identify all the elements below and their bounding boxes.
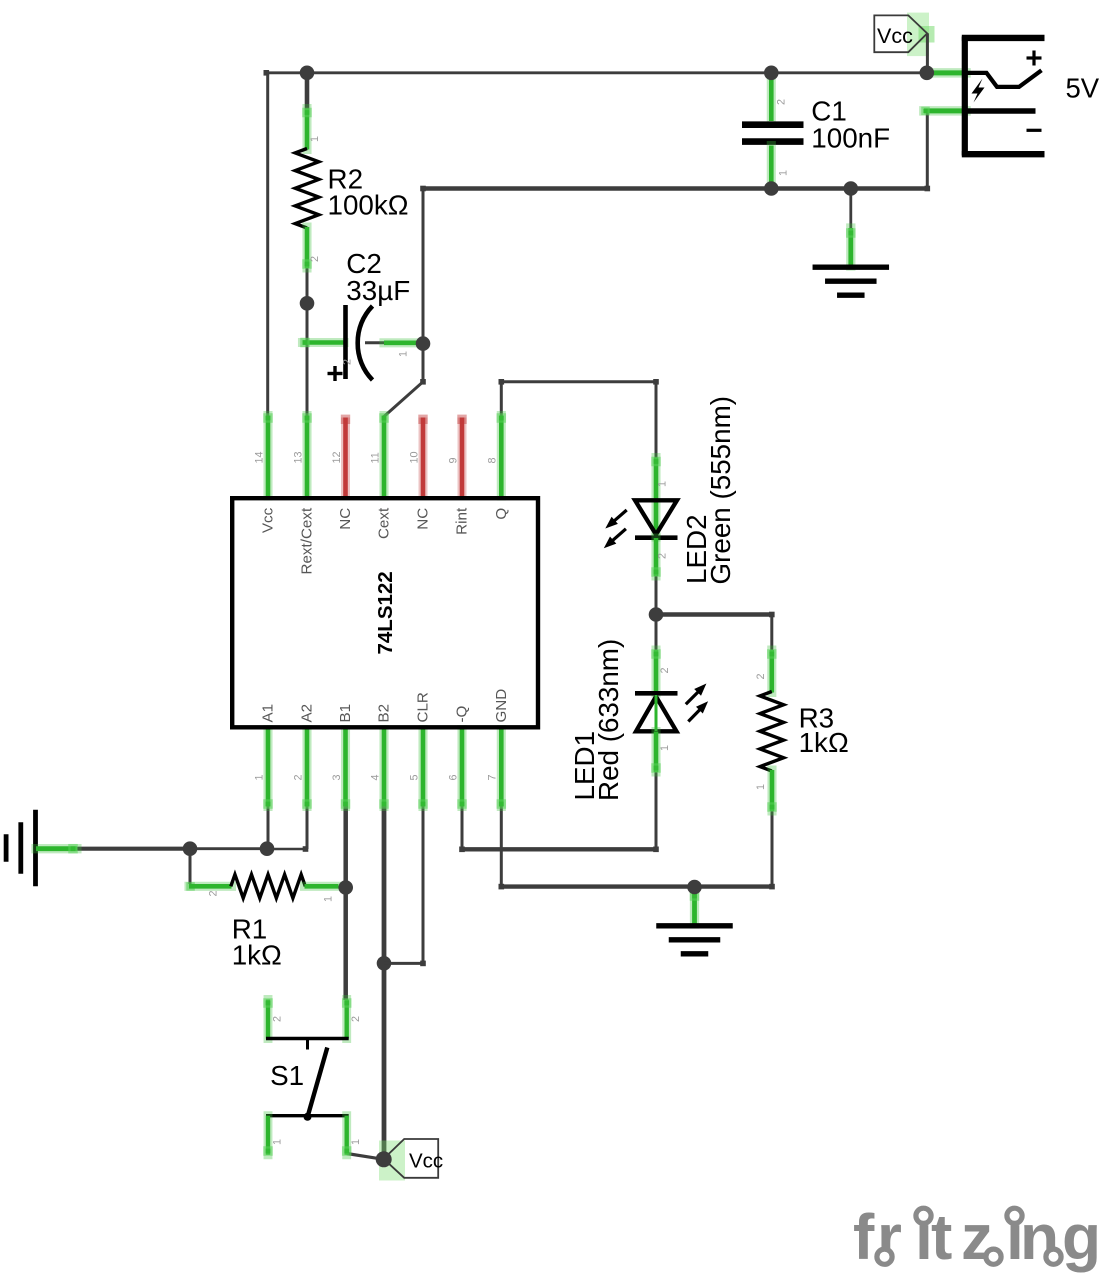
wire LED1 top lead from junction — [655, 615, 658, 653]
wire IC pin 7 (GND) down and right to ground junction — [500, 806, 503, 887]
svg-text:1: 1 — [755, 784, 767, 790]
pin 7 (GND) bottom pin — [497, 730, 506, 807]
pin 14 (Vcc) top pin — [263, 416, 272, 497]
wire down from ground junction to R1 pin2 — [189, 849, 192, 884]
pin 1 (A1) bottom pin — [263, 730, 272, 807]
wire bendpoint left end of top rail — [264, 70, 270, 76]
ground symbol top right — [813, 189, 890, 296]
node junction rail/ground — [844, 181, 859, 196]
wire R3 bottom lead up from GND rail — [771, 810, 774, 887]
node junction Vcc / top rail — [920, 66, 935, 81]
watermark fritzing — [853, 1201, 1101, 1273]
capacitor C2 33uF electrolytic — [300, 248, 417, 381]
svg-text:100kΩ: 100kΩ — [328, 190, 409, 221]
svg-text:Green (555nm): Green (555nm) — [705, 396, 736, 584]
wire bendpoint rail right corner — [925, 186, 931, 192]
wire vertical from top rail to IC pin 14 — [266, 72, 269, 418]
wire IC pin1 down — [267, 806, 270, 849]
svg-text:1: 1 — [350, 1139, 362, 1145]
wire junction to R3 column horizontal y=614.5 — [656, 612, 772, 617]
power supply J1 5V — [921, 37, 1100, 156]
svg-text:Rint: Rint — [454, 507, 471, 535]
svg-text:B1: B1 — [337, 704, 354, 723]
svg-text:A1: A1 — [260, 704, 277, 723]
svg-text:A2: A2 — [299, 704, 316, 723]
svg-text:2: 2 — [755, 673, 767, 679]
wire IC pin 5 (CLR) down — [422, 806, 425, 963]
wire from C2 node down bend — [422, 344, 425, 382]
wire corner x=423 y=188 down to C2 pin1 node — [422, 189, 425, 344]
pin 13 (Rext/Cext) top pin — [302, 416, 311, 497]
resistor R3 1k — [755, 649, 849, 812]
wire IC pin 8 riser and horizontal to LED2 column — [500, 382, 503, 417]
wire IC pin2 down — [306, 806, 309, 849]
node junction R1 pin1 / B1 — [338, 880, 353, 895]
svg-text:NC: NC — [415, 508, 432, 530]
svg-text:1kΩ: 1kΩ — [232, 940, 282, 971]
power Vcc flag top — [874, 13, 934, 57]
ground symbol left — [6, 810, 78, 887]
node junction R2/C2 wire — [300, 296, 315, 311]
svg-text:7: 7 — [487, 774, 499, 780]
svg-text:-Q: -Q — [454, 705, 471, 722]
svg-text:2: 2 — [350, 1016, 362, 1022]
svg-text:1: 1 — [398, 351, 410, 357]
svg-text:1: 1 — [309, 136, 321, 142]
node junction C1 pin2 top — [764, 66, 779, 81]
svg-text:CLR: CLR — [415, 692, 432, 722]
wire Vcc flag stem — [926, 33, 929, 72]
pin 10 (NC) top pin — [419, 418, 428, 497]
svg-text:13: 13 — [292, 451, 304, 463]
pin 9 (Rint) top pin — [458, 418, 467, 497]
wire from R2 pin2 down toward IC pin 13 — [306, 268, 309, 417]
pin 3 (B1) bottom pin — [341, 730, 350, 807]
node junction top rail / R2 — [300, 66, 315, 81]
svg-text:5: 5 — [408, 774, 420, 780]
svg-text:10: 10 — [408, 451, 420, 463]
pin 5 (CLR) bottom pin — [418, 730, 427, 807]
node junction C2 pin1 — [416, 336, 431, 351]
wire IC pin 6 (-Q) down and right to LED1 — [461, 806, 464, 849]
wire battery minus vertical riser x=927 — [926, 111, 929, 189]
svg-text:6: 6 — [447, 774, 459, 780]
wire top Vcc rail y=72.8 — [266, 71, 927, 74]
svg-text:1: 1 — [272, 1139, 284, 1145]
wire left ground to R1 junction — [77, 847, 190, 851]
wire IC pin 3 (B1) down through R1 node to S1 — [343, 806, 348, 1000]
svg-text:1: 1 — [659, 745, 671, 751]
svg-text:Vcc: Vcc — [877, 24, 913, 48]
svg-text:f: f — [853, 1201, 875, 1273]
LED1 red 633nm — [569, 639, 708, 801]
svg-text:GND: GND — [493, 689, 510, 723]
svg-text:2: 2 — [208, 890, 220, 896]
svg-text:100nF: 100nF — [811, 123, 890, 154]
svg-text:2: 2 — [292, 774, 304, 780]
pin 6 (-Q) bottom pin — [457, 730, 466, 807]
node junction at A1 — [260, 841, 275, 856]
svg-text:2: 2 — [309, 256, 321, 262]
svg-text:2: 2 — [776, 99, 788, 105]
svg-text:2: 2 — [342, 359, 354, 365]
svg-text:33µF: 33µF — [346, 275, 410, 306]
node junction B2/CLR — [377, 956, 392, 971]
svg-text:11: 11 — [369, 452, 381, 463]
switch S1 pushbutton — [263, 998, 362, 1156]
pin 12 (NC) top pin — [341, 418, 350, 497]
wire LED2 column vertical down to LED2 pin 1 — [655, 382, 658, 459]
svg-text:t: t — [931, 1201, 952, 1273]
svg-text:5V: 5V — [1066, 73, 1100, 104]
LED2 green 555nm — [604, 396, 736, 584]
wire A1 junction to A2 column — [267, 848, 306, 851]
capacitor C1 100nF — [742, 74, 890, 188]
power Vcc flag bottom — [379, 1139, 443, 1181]
svg-text:3: 3 — [331, 774, 343, 780]
svg-text:Vcc: Vcc — [260, 507, 277, 533]
pin 11 (Cext) top pin — [379, 416, 388, 497]
wire second rail y=188.5 from C2 column to battery minus — [423, 186, 927, 191]
svg-text:1kΩ: 1kΩ — [799, 727, 849, 758]
svg-text:1: 1 — [253, 774, 265, 780]
wire junction to IC pin1 column — [190, 847, 267, 850]
svg-text:8: 8 — [487, 457, 499, 463]
pin 4 (B2) bottom pin — [379, 730, 388, 807]
svg-text:2: 2 — [657, 553, 669, 559]
svg-text:9: 9 — [447, 457, 459, 463]
svg-text:2: 2 — [659, 667, 671, 673]
svg-text:2: 2 — [272, 1016, 284, 1022]
op IC U1 74LS122 body — [232, 498, 538, 727]
svg-text:14: 14 — [253, 451, 265, 463]
svg-text:12: 12 — [331, 451, 343, 463]
wire from top rail down to R2 pin 1 — [305, 73, 310, 110]
resistor R2 100k — [295, 108, 408, 269]
wire LED chain: LED2 pin2 to junction — [655, 576, 658, 615]
node junction C1 pin1 bottom — [764, 181, 779, 196]
node junction ground/R1/A1 rail — [183, 841, 198, 856]
wire CLR horizontal jog — [384, 962, 423, 965]
wire IC pin 4 (B2) down to bottom Vcc — [382, 806, 387, 1159]
svg-text:1: 1 — [323, 896, 335, 902]
wire S1 bottom to Vcc flag node — [347, 1154, 384, 1160]
svg-text:Red (633nm): Red (633nm) — [593, 639, 624, 801]
resistor R1 1k — [186, 875, 338, 971]
svg-text:Cext: Cext — [376, 507, 393, 539]
svg-text:NC: NC — [337, 508, 354, 530]
svg-text:S1: S1 — [270, 1060, 304, 1091]
svg-text:1: 1 — [778, 170, 790, 176]
svg-text:Rext/Cext: Rext/Cext — [299, 507, 316, 574]
svg-text:Vcc: Vcc — [409, 1150, 443, 1173]
node junction LED2/LED1/R3 — [649, 607, 664, 622]
wire R3 column down to R3 pin 2 — [770, 615, 773, 653]
svg-text:74LS122: 74LS122 — [374, 571, 397, 654]
pin 2 (A2) bottom pin — [302, 730, 311, 807]
wire diagonal from bend to IC pin 11 — [384, 382, 423, 417]
svg-text:4: 4 — [369, 774, 381, 780]
svg-text:1: 1 — [657, 481, 669, 487]
op IC U1 border — [232, 498, 538, 727]
node junction Vcc bottom — [376, 1151, 392, 1167]
svg-text:B2: B2 — [376, 704, 393, 723]
pin 8 (Q) top pin — [497, 416, 506, 497]
ground symbol bottom middle — [656, 888, 733, 954]
svg-text:g: g — [1062, 1201, 1101, 1273]
wire LED1 bottom lead down to -Q horizontal — [655, 771, 658, 849]
node junction bottom ground — [687, 880, 702, 895]
svg-text:Q: Q — [493, 508, 510, 520]
